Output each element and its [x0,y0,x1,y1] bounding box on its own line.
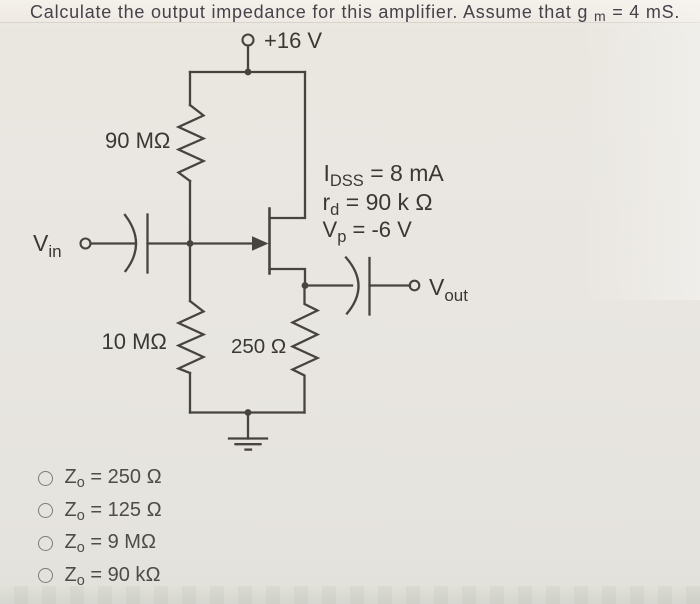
wire C2 to Vout [370,284,411,286]
wire top rail [190,71,305,73]
resistor R3 250 Ω [293,286,318,413]
wire left branch lower [189,373,191,413]
junction dot ground node [245,409,252,416]
svg-text:250 Ω: 250 Ω [231,335,286,358]
svg-text:Vin: Vin [33,230,62,261]
junction dot supply [245,69,252,76]
junction dot gate node [187,240,194,247]
svg-text:rd = 90 k Ω: rd = 90 k Ω [323,189,433,219]
wire right branch to drain [270,72,306,218]
terminal Vout [410,281,420,291]
wire left branch middle [189,181,191,301]
svg-text:90 MΩ: 90 MΩ [105,128,170,153]
transistor Q1 JFET [190,209,305,286]
svg-text:+16 V: +16 V [264,28,322,53]
svg-text:10 MΩ: 10 MΩ [102,329,167,354]
answer option 3 [38,531,157,556]
gate arrow of Q1 [252,236,269,251]
wire Vin to C1 [91,242,137,244]
wire gate [148,242,191,244]
wire supply stem [247,46,249,73]
svg-text:Vout: Vout [429,274,468,305]
wire left branch upper [189,72,191,105]
resistor R2 10 MΩ [179,301,204,373]
resistor R1 90 MΩ [179,105,204,181]
answer option 2 [38,499,162,524]
answer option 1 [38,466,162,491]
wire ground stem [247,413,249,439]
capacitor C2 output [346,258,370,315]
junction dot source node [302,282,309,289]
svg-text:IDSS = 8 mA: IDSS = 8 mA [324,160,445,190]
terminal +16 V [243,35,254,46]
wire source node to C2 [305,284,352,286]
svg-text:Vp = -6 V: Vp = -6 V [323,217,413,246]
answer option 4 [38,564,161,589]
terminal Vin [81,239,91,249]
ground [229,439,267,450]
capacitor C1 input [125,215,148,273]
wire bottom rail [190,411,305,413]
